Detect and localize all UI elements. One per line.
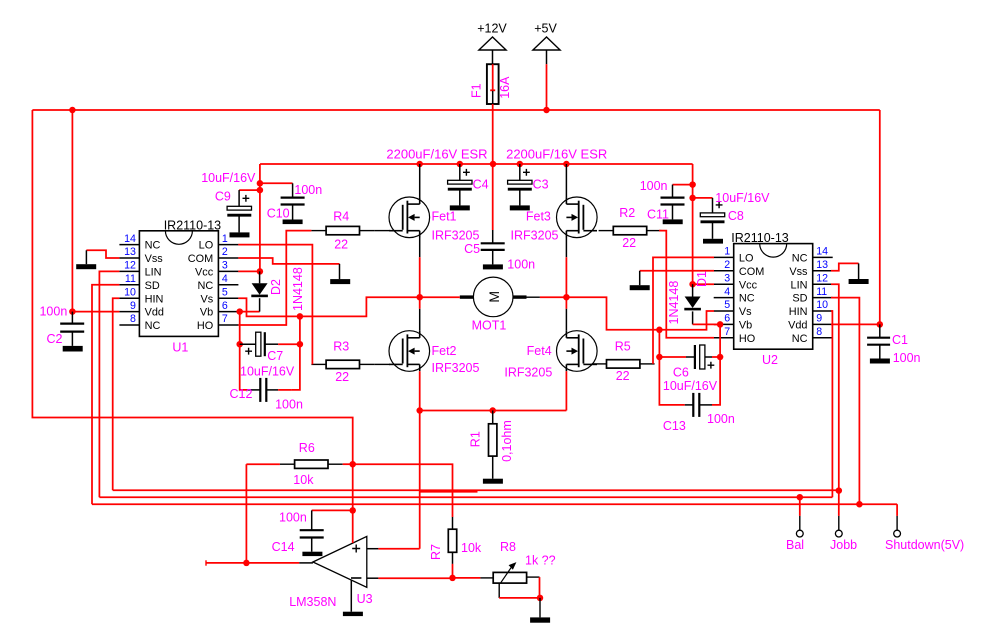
svg-text:HIN: HIN [145,293,164,305]
svg-text:10uF/16V: 10uF/16V [201,171,256,185]
svg-text:C5: C5 [464,242,480,256]
svg-text:C7: C7 [267,349,283,363]
svg-text:1N4148: 1N4148 [667,281,681,325]
svg-text:C10: C10 [267,206,290,220]
svg-text:Fet1: Fet1 [432,209,457,223]
svg-text:100n: 100n [640,179,668,193]
svg-text:+5V: +5V [534,22,557,36]
svg-text:R7: R7 [429,544,443,560]
svg-text:6: 6 [222,300,228,312]
svg-text:22: 22 [616,369,630,383]
svg-text:2200uF/16V ESR: 2200uF/16V ESR [386,146,487,161]
svg-text:Fet2: Fet2 [432,344,457,358]
svg-text:R6: R6 [299,441,315,455]
svg-text:MOT1: MOT1 [472,319,507,333]
svg-text:100n: 100n [279,511,307,525]
svg-text:NC: NC [792,253,808,265]
svg-text:HO: HO [739,333,755,345]
svg-text:NC: NC [739,293,755,305]
svg-text:IRF3205: IRF3205 [432,361,480,375]
svg-text:0,1ohm: 0,1ohm [500,420,514,462]
svg-text:NC: NC [145,320,161,332]
svg-text:IR2110-13: IR2110-13 [164,218,221,232]
svg-text:NC: NC [197,280,213,292]
svg-text:1k ??: 1k ?? [525,554,556,568]
svg-text:2: 2 [724,259,730,271]
svg-text:NC: NC [792,333,808,345]
svg-text:12: 12 [124,260,136,272]
svg-text:HO: HO [197,320,213,332]
svg-text:22: 22 [334,237,348,251]
svg-text:IRF3205: IRF3205 [511,229,559,243]
svg-text:C3: C3 [533,178,549,192]
svg-text:Vb: Vb [200,307,213,319]
svg-text:100n: 100n [275,398,303,412]
svg-text:10uF/16V: 10uF/16V [240,365,295,379]
svg-text:NC: NC [145,240,161,252]
svg-text:HIN: HIN [789,306,808,318]
svg-text:M: M [486,291,502,303]
svg-text:COM: COM [739,266,764,278]
svg-text:Vdd: Vdd [145,307,164,319]
svg-text:Vb: Vb [739,320,752,332]
svg-text:C6: C6 [673,366,689,380]
svg-text:C1: C1 [892,333,908,347]
svg-text:C8: C8 [728,209,744,223]
svg-text:LO: LO [739,253,754,265]
svg-text:3: 3 [724,272,730,284]
svg-text:5: 5 [222,286,228,298]
svg-text:10k: 10k [293,473,314,487]
svg-text:1N4148: 1N4148 [291,267,305,311]
svg-text:C9: C9 [215,190,231,204]
svg-text:6: 6 [724,313,730,325]
svg-text:Vs: Vs [739,306,752,318]
svg-text:C2: C2 [47,332,63,346]
svg-text:R1: R1 [468,431,482,447]
svg-text:1: 1 [222,233,228,245]
svg-text:Vss: Vss [145,253,164,265]
svg-text:LM358N: LM358N [289,595,336,609]
svg-text:100n: 100n [707,412,735,426]
svg-text:LIN: LIN [145,267,162,279]
svg-text:100n: 100n [893,351,921,365]
svg-text:2200uF/16V ESR: 2200uF/16V ESR [506,146,607,161]
svg-text:D2: D2 [269,279,283,295]
svg-text:11: 11 [125,273,136,285]
svg-text:C12: C12 [230,387,253,401]
svg-text:2: 2 [222,246,228,258]
svg-text:13: 13 [124,246,136,258]
svg-text:9: 9 [130,300,136,312]
svg-text:14: 14 [816,246,828,258]
svg-text:Vcc: Vcc [739,279,758,291]
svg-text:22: 22 [335,370,349,384]
svg-text:+12V: +12V [477,22,507,36]
svg-text:D1: D1 [695,271,709,287]
svg-text:7: 7 [222,313,228,325]
svg-text:10: 10 [816,299,828,311]
svg-text:C13: C13 [663,419,686,433]
svg-text:8: 8 [816,326,822,338]
svg-text:11: 11 [816,286,827,298]
svg-text:Vdd: Vdd [788,320,807,332]
svg-text:Vss: Vss [789,266,808,278]
svg-text:IR2110-13: IR2110-13 [731,231,788,245]
svg-text:Vs: Vs [200,293,213,305]
svg-text:C4: C4 [473,178,489,192]
svg-text:100n: 100n [39,305,67,319]
svg-text:LIN: LIN [791,279,808,291]
svg-text:U1: U1 [172,340,188,354]
svg-text:LO: LO [199,240,214,252]
svg-text:4: 4 [222,273,228,285]
svg-text:C11: C11 [647,207,669,221]
svg-text:10: 10 [124,286,136,298]
svg-text:10uF/16V: 10uF/16V [715,191,770,205]
svg-text:R5: R5 [615,339,631,353]
svg-text:SD: SD [792,293,807,305]
svg-text:9: 9 [816,313,822,325]
svg-text:IRF3205: IRF3205 [432,229,480,243]
svg-text:22: 22 [622,236,636,250]
svg-text:13: 13 [816,259,828,271]
svg-text:U2: U2 [762,353,778,367]
svg-text:R3: R3 [333,340,349,354]
svg-text:Shutdown(5V): Shutdown(5V) [885,538,964,552]
svg-text:SD: SD [145,280,160,292]
svg-text:Jobb: Jobb [830,538,857,552]
svg-text:Bal: Bal [786,538,804,552]
svg-text:U3: U3 [357,592,373,606]
svg-text:14: 14 [124,233,136,245]
svg-text:5: 5 [724,299,730,311]
svg-text:Vcc: Vcc [195,267,214,279]
svg-text:100n: 100n [507,258,535,272]
svg-text:C14: C14 [272,540,295,554]
svg-text:10k: 10k [461,541,482,555]
svg-text:R2: R2 [619,206,635,220]
svg-text:1: 1 [724,246,730,258]
svg-text:7: 7 [724,326,730,338]
svg-text:R8: R8 [500,540,516,554]
svg-text:8: 8 [130,313,136,325]
svg-text:F1: F1 [469,83,483,98]
svg-text:IRF3205: IRF3205 [504,365,552,379]
svg-text:12: 12 [816,272,828,284]
svg-text:Fet3: Fet3 [526,209,551,223]
svg-text:COM: COM [188,253,213,265]
svg-text:R4: R4 [333,209,349,223]
svg-text:16A: 16A [498,76,512,99]
svg-text:100n: 100n [294,183,322,197]
svg-text:4: 4 [724,286,730,298]
svg-text:10uF/16V: 10uF/16V [663,379,718,393]
svg-text:Fet4: Fet4 [527,344,552,358]
svg-text:3: 3 [222,260,228,272]
